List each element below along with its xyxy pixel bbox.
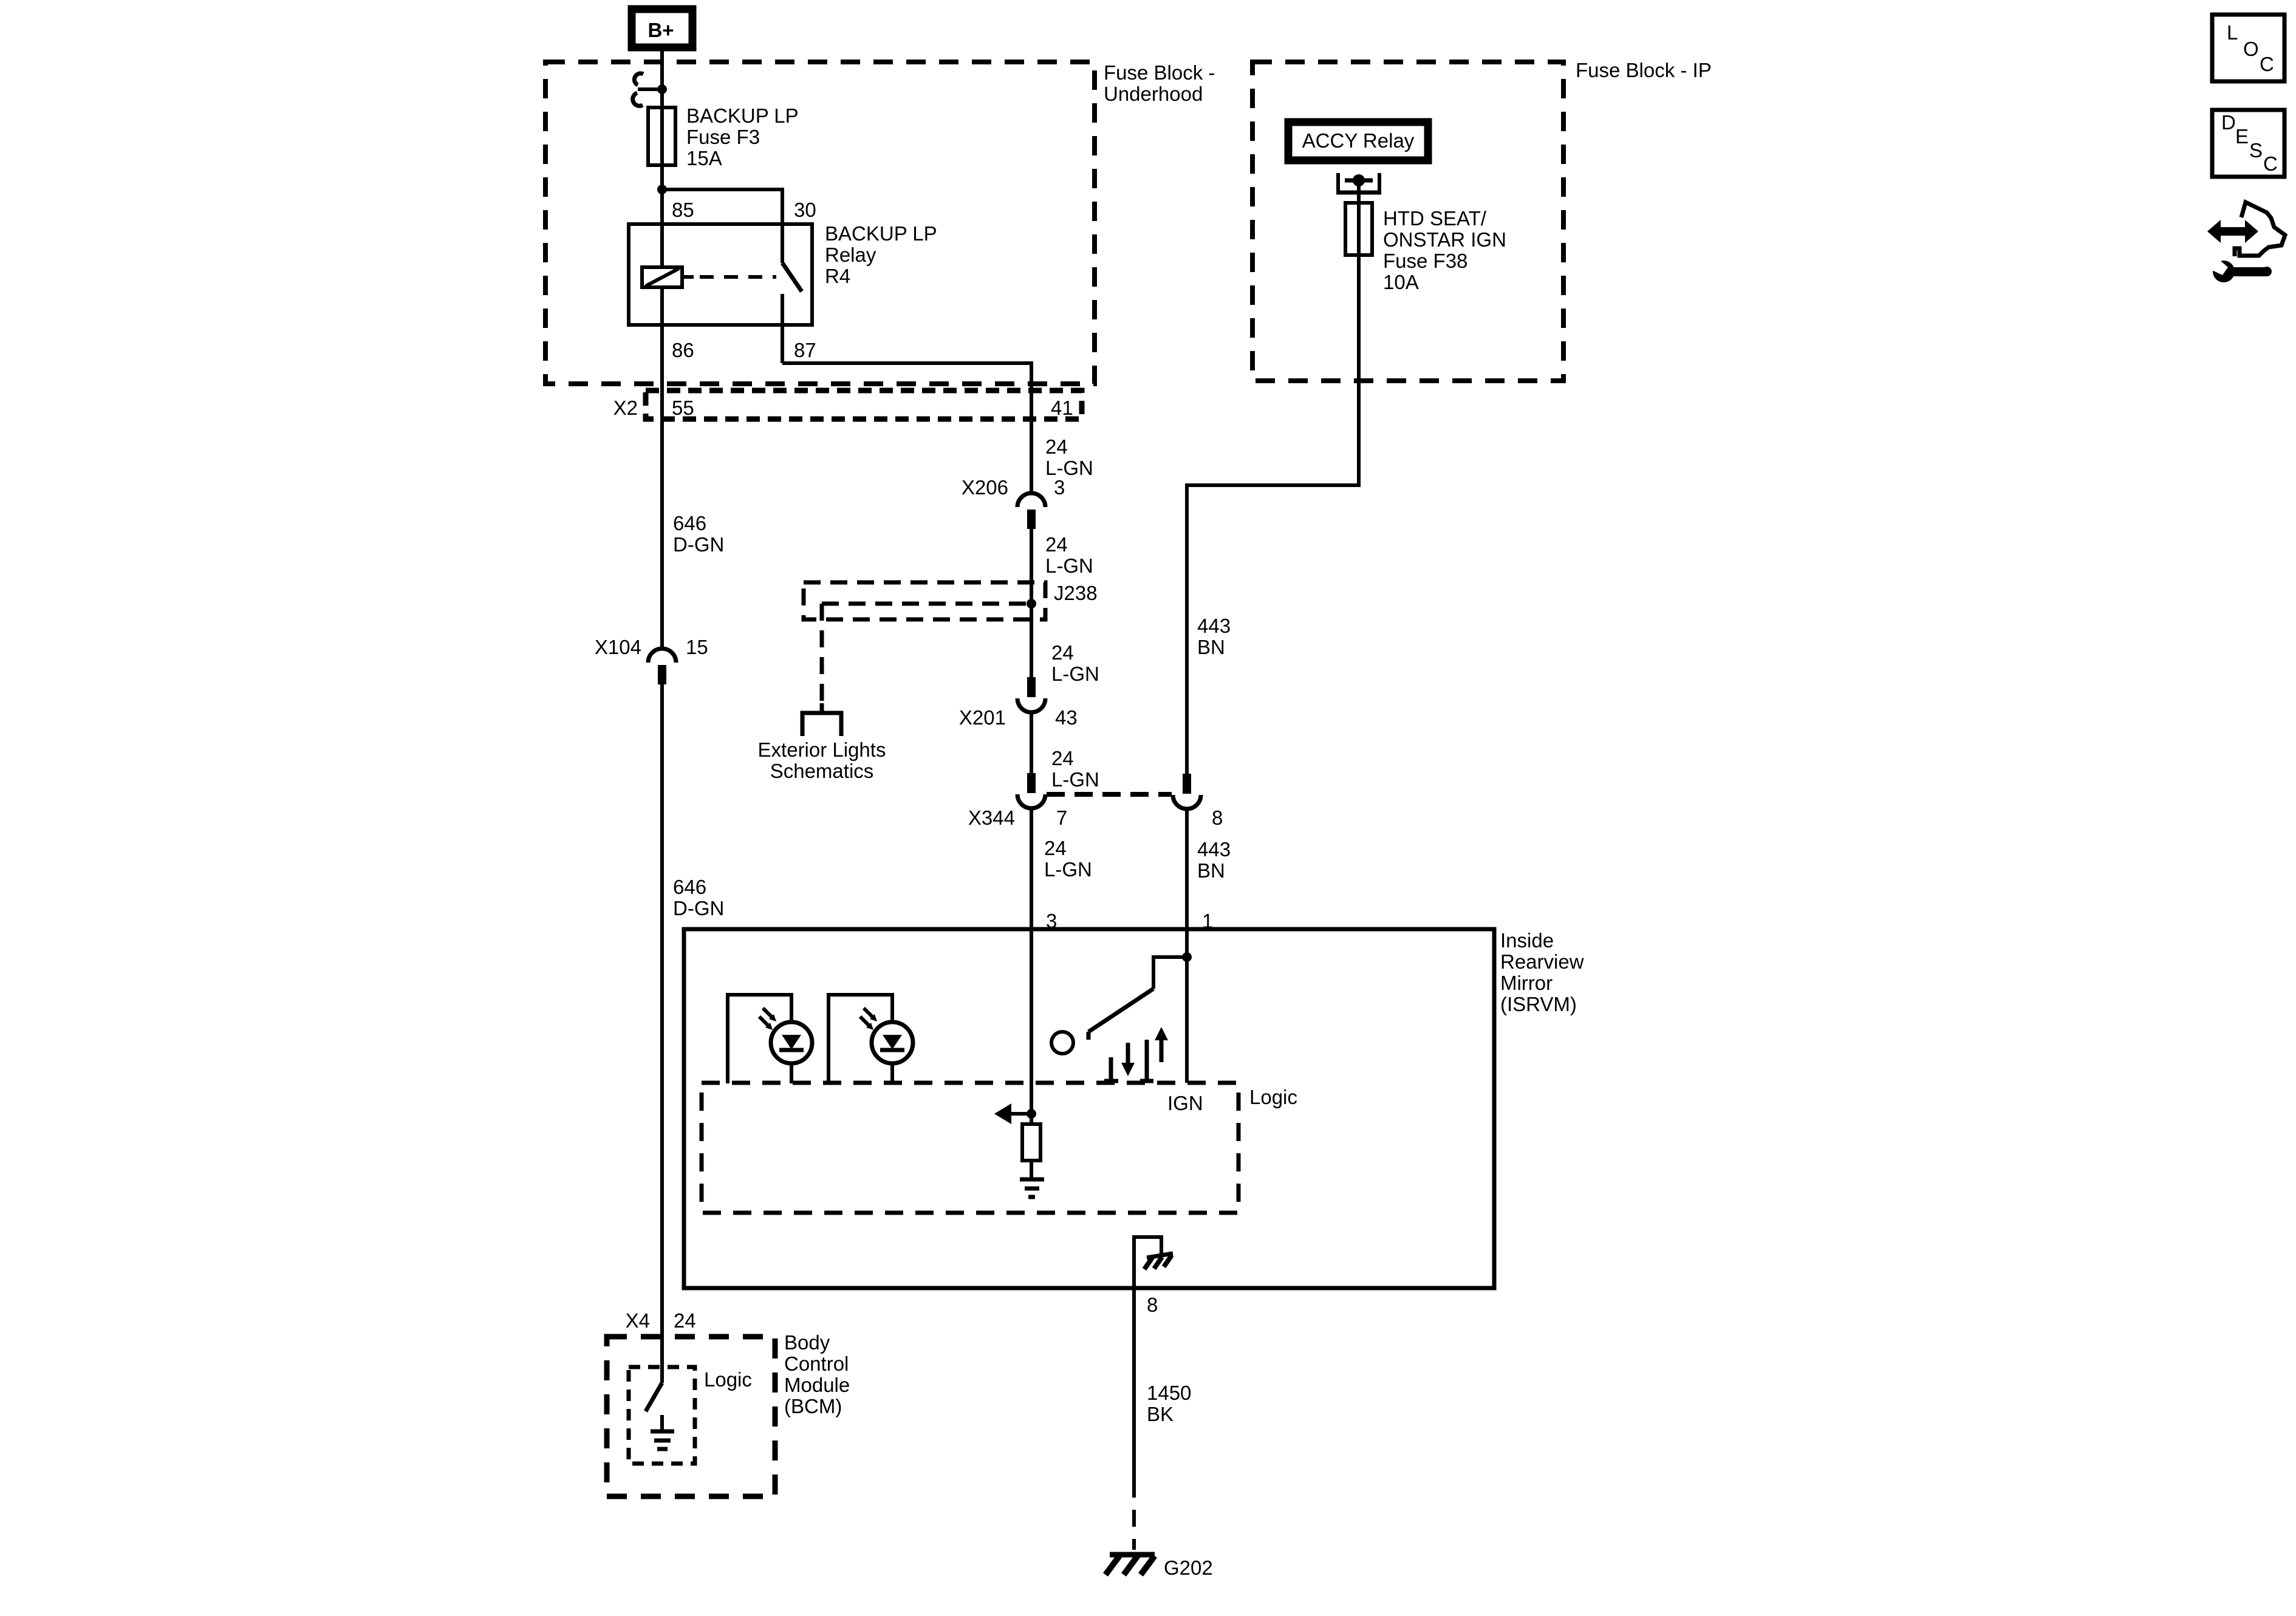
- svg-text:87: 87: [794, 339, 816, 361]
- svg-text:ONSTAR IGN: ONSTAR IGN: [1383, 228, 1506, 251]
- svg-text:S: S: [2249, 139, 2263, 162]
- Inside Rearview Mirror (ISRVM) box: [684, 929, 1494, 1288]
- svg-text:L-GN: L-GN: [1045, 554, 1093, 577]
- node: terminal junction dot: [1353, 174, 1365, 186]
- svg-text:24: 24: [674, 1309, 696, 1332]
- wire fuse F3 to relay coil: [660, 165, 664, 268]
- svg-text:7: 7: [1056, 806, 1067, 829]
- svg-text:D-GN: D-GN: [673, 897, 724, 919]
- svg-text:24: 24: [1051, 641, 1074, 664]
- connector X344 pin 8: [1183, 774, 1191, 794]
- svg-text:Rearview: Rearview: [1500, 950, 1584, 973]
- photodiode D1 light arrows: [763, 1008, 773, 1018]
- svg-text:(BCM): (BCM): [784, 1395, 842, 1417]
- power feed B+: [632, 9, 692, 47]
- fuse F3 (BACKUP LP Fuse F3 15A): [648, 107, 675, 165]
- svg-text:L: L: [2227, 21, 2238, 44]
- svg-text:24: 24: [1045, 533, 1068, 556]
- svg-text:86: 86: [672, 339, 694, 361]
- vehicle outline icon: [2235, 202, 2285, 256]
- svg-text:15: 15: [686, 636, 708, 658]
- svg-text:L-GN: L-GN: [1045, 457, 1093, 479]
- svg-text:Fuse F38: Fuse F38: [1383, 250, 1467, 272]
- connector X104 pin 15: [648, 649, 676, 663]
- svg-text:X104: X104: [595, 636, 641, 658]
- Fuse Block - IP dashed box: [1252, 62, 1563, 381]
- connector X344 dashed tie line: [1047, 792, 1172, 797]
- LOC legend box: [2212, 15, 2284, 81]
- svg-text:L-GN: L-GN: [1051, 663, 1099, 685]
- wire pin 8 to G202: [1132, 1288, 1136, 1481]
- logic earth ground: [1020, 1178, 1044, 1182]
- splice J238 dashed box: [804, 582, 1045, 619]
- svg-text:Exterior Lights: Exterior Lights: [758, 738, 886, 761]
- svg-text:15A: 15A: [686, 147, 722, 169]
- relay terminal holder: [1336, 173, 1340, 193]
- svg-text:3: 3: [1054, 476, 1065, 499]
- wire junction to pin 30: [662, 189, 782, 224]
- photodiode D2 circuit: [829, 995, 892, 1083]
- svg-text:646: 646: [673, 512, 706, 534]
- svg-text:443: 443: [1197, 838, 1231, 861]
- svg-text:L-GN: L-GN: [1051, 768, 1099, 791]
- svg-text:Body: Body: [784, 1331, 830, 1354]
- svg-text:Logic: Logic: [1249, 1086, 1297, 1108]
- svg-text:Relay: Relay: [825, 244, 876, 266]
- connector X2 dashed box: [646, 390, 1082, 419]
- relay R4 coil: [642, 267, 682, 287]
- svg-text:X2: X2: [613, 397, 638, 419]
- fuse F38 (HTD SEAT/ONSTAR IGN 10A): [1345, 203, 1372, 255]
- svg-text:Module: Module: [784, 1374, 850, 1396]
- ISRVM chassis ground (pin 8): [1134, 1237, 1161, 1288]
- svg-text:24: 24: [1045, 435, 1068, 458]
- svg-text:Control: Control: [784, 1352, 849, 1375]
- svg-text:Logic: Logic: [704, 1368, 752, 1391]
- svg-text:24: 24: [1044, 837, 1067, 859]
- photodiode D2 light arrows: [864, 1008, 873, 1018]
- BCM Logic dashed box: [629, 1367, 695, 1464]
- svg-text:85: 85: [672, 199, 694, 221]
- BCM internal switch to ground: [646, 1383, 662, 1411]
- wire fuse F38 to X344 pin 8: [1187, 255, 1359, 774]
- wire holder to fuse F38: [1357, 180, 1361, 203]
- double-arrow icon: [2207, 220, 2258, 243]
- Body Control Module dashed box: [607, 1337, 775, 1496]
- node: junction on IGN feed: [1182, 952, 1192, 962]
- wire X201 to X344: [1030, 712, 1033, 773]
- connector X201 pin 43: [1027, 677, 1036, 697]
- svg-text:E: E: [2235, 125, 2249, 148]
- svg-text:30: 30: [794, 199, 816, 221]
- wire B+ to fuse F3: [660, 51, 664, 107]
- svg-text:R4: R4: [825, 265, 850, 287]
- svg-text:BN: BN: [1197, 859, 1225, 882]
- svg-text:BK: BK: [1147, 1403, 1174, 1425]
- relay R4 box (BACKUP LP Relay): [629, 224, 812, 325]
- svg-text:BACKUP LP: BACKUP LP: [825, 222, 937, 245]
- photodiode D1 circuit: [728, 995, 791, 1083]
- BCM earth ground: [660, 1415, 664, 1431]
- svg-text:D: D: [2221, 111, 2236, 134]
- dimming element arrows: [1109, 1057, 1113, 1081]
- ground G202: [1110, 1552, 1155, 1558]
- node: splice junction below B+: [657, 84, 667, 94]
- svg-text:1450: 1450: [1147, 1382, 1191, 1404]
- ISRVM Logic dashed box: [702, 1083, 1239, 1213]
- node: splice J238 junction: [1027, 599, 1036, 609]
- svg-text:L-GN: L-GN: [1044, 858, 1092, 881]
- connector X344 pin 7: [1027, 773, 1036, 793]
- wire relay 87 to X2 pin 41: [782, 363, 1031, 493]
- svg-text:Fuse Block -: Fuse Block -: [1104, 61, 1215, 84]
- svg-text:41: 41: [1051, 397, 1073, 419]
- J238 inner dashed branch: [822, 602, 1027, 606]
- node: logic input junction with arrow: [1027, 1109, 1036, 1119]
- svg-text:24: 24: [1051, 747, 1074, 769]
- svg-text:8: 8: [1147, 1294, 1158, 1316]
- svg-text:BACKUP LP: BACKUP LP: [686, 104, 799, 127]
- svg-text:55: 55: [672, 397, 694, 419]
- svg-text:Underhood: Underhood: [1104, 83, 1203, 105]
- svg-text:Inside: Inside: [1500, 929, 1554, 952]
- connector X206 pin 3: [1017, 493, 1045, 507]
- svg-text:C: C: [2260, 53, 2274, 75]
- svg-text:443: 443: [1197, 615, 1231, 637]
- svg-text:Schematics: Schematics: [770, 760, 874, 782]
- relay coil-to-contact dashed link: [682, 275, 694, 279]
- fusible-link curl symbol: [638, 87, 662, 91]
- Fuse Block - Underhood dashed box: [545, 62, 1095, 384]
- ACCY Relay box: [1288, 122, 1428, 160]
- svg-text:ACCY Relay: ACCY Relay: [1302, 129, 1415, 152]
- wire X344 to ISRVM pin 3: [1030, 808, 1033, 1124]
- node: junction to relay pin 30: [657, 185, 667, 194]
- ISRVM internal switch: [1153, 957, 1187, 989]
- svg-text:D-GN: D-GN: [673, 533, 724, 556]
- svg-text:43: 43: [1055, 706, 1078, 729]
- svg-text:HTD SEAT/: HTD SEAT/: [1383, 207, 1487, 230]
- svg-text:X4: X4: [626, 1309, 650, 1332]
- svg-text:646: 646: [673, 876, 706, 898]
- wire X206 to X201: [1030, 529, 1033, 677]
- svg-text:B+: B+: [647, 19, 674, 41]
- relay R4 switch contact: [781, 224, 784, 263]
- svg-text:J238: J238: [1054, 582, 1098, 604]
- DESC legend box: [2212, 110, 2284, 177]
- svg-text:O: O: [2243, 38, 2259, 60]
- svg-text:Fuse F3: Fuse F3: [686, 126, 760, 148]
- svg-text:X201: X201: [959, 706, 1006, 729]
- svg-text:Fuse Block - IP: Fuse Block - IP: [1576, 59, 1712, 81]
- off-page fork to Exterior Lights Schematics: [820, 703, 824, 713]
- wire relay 86 down: [660, 287, 664, 649]
- wire X344 to ISRVM pin 1: [1185, 809, 1189, 1083]
- svg-text:C: C: [2263, 152, 2278, 175]
- svg-text:(ISRVM): (ISRVM): [1500, 993, 1577, 1015]
- svg-text:IGN: IGN: [1167, 1092, 1203, 1114]
- wrench icon: [2213, 261, 2235, 282]
- svg-text:X206: X206: [962, 476, 1008, 499]
- wire X104 to BCM: [660, 684, 664, 1383]
- svg-text:X344: X344: [968, 806, 1015, 829]
- resistor (logic pull-down): [1022, 1124, 1040, 1161]
- svg-text:Mirror: Mirror: [1500, 972, 1553, 994]
- svg-text:10A: 10A: [1383, 271, 1419, 293]
- svg-text:G202: G202: [1164, 1556, 1213, 1579]
- svg-text:8: 8: [1212, 806, 1223, 829]
- svg-text:BN: BN: [1197, 636, 1225, 658]
